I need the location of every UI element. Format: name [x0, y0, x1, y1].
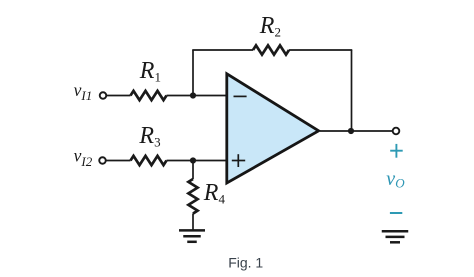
wire node A up to feedback rail: [192, 50, 194, 96]
terminal v_O: [393, 128, 400, 135]
resistor R4: [188, 179, 197, 214]
svg-text:R3: R3: [138, 123, 160, 149]
op-amp U1: [227, 74, 319, 183]
ground at v_O reference: [382, 231, 409, 242]
v_O plus polarity mark: [390, 144, 403, 158]
resistor R1: [131, 91, 167, 100]
svg-text:R1: R1: [139, 58, 161, 84]
wire from R1 to op-amp inverting input (through node A): [167, 95, 227, 97]
node B junction dot: [190, 157, 196, 163]
op-amp inverting pin mark -: [234, 95, 247, 97]
terminal v_I1: [100, 92, 107, 99]
wire node B down to R4: [192, 161, 194, 180]
svg-text:Fig. 1: Fig. 1: [228, 255, 263, 271]
svg-text:vO: vO: [386, 168, 405, 191]
svg-text:vI1: vI1: [74, 80, 93, 103]
wire from v_I2 terminal to R3: [106, 160, 130, 162]
resistor R3: [131, 156, 167, 165]
svg-text:R4: R4: [203, 180, 226, 206]
wire from v_I1 terminal to R1: [107, 95, 131, 97]
wire feedback down to output node: [351, 50, 353, 131]
svg-text:vI2: vI2: [74, 146, 93, 169]
terminal v_I2: [99, 157, 106, 164]
svg-text:R2: R2: [259, 13, 281, 39]
output node junction dot: [348, 128, 354, 134]
wire top feedback rail right segment: [289, 49, 352, 51]
ground under R4: [179, 230, 205, 241]
wire from R3 to op-amp non-inverting input (through node B): [167, 160, 227, 162]
wire top feedback rail left segment: [192, 49, 253, 51]
v_O minus polarity mark: [390, 212, 402, 214]
resistor R2: [253, 45, 289, 54]
node A junction dot: [190, 92, 196, 98]
op-amp non-inverting pin mark +: [232, 154, 245, 167]
wire from R4 to ground: [192, 214, 194, 231]
wire op-amp output to v_O terminal: [320, 130, 393, 132]
